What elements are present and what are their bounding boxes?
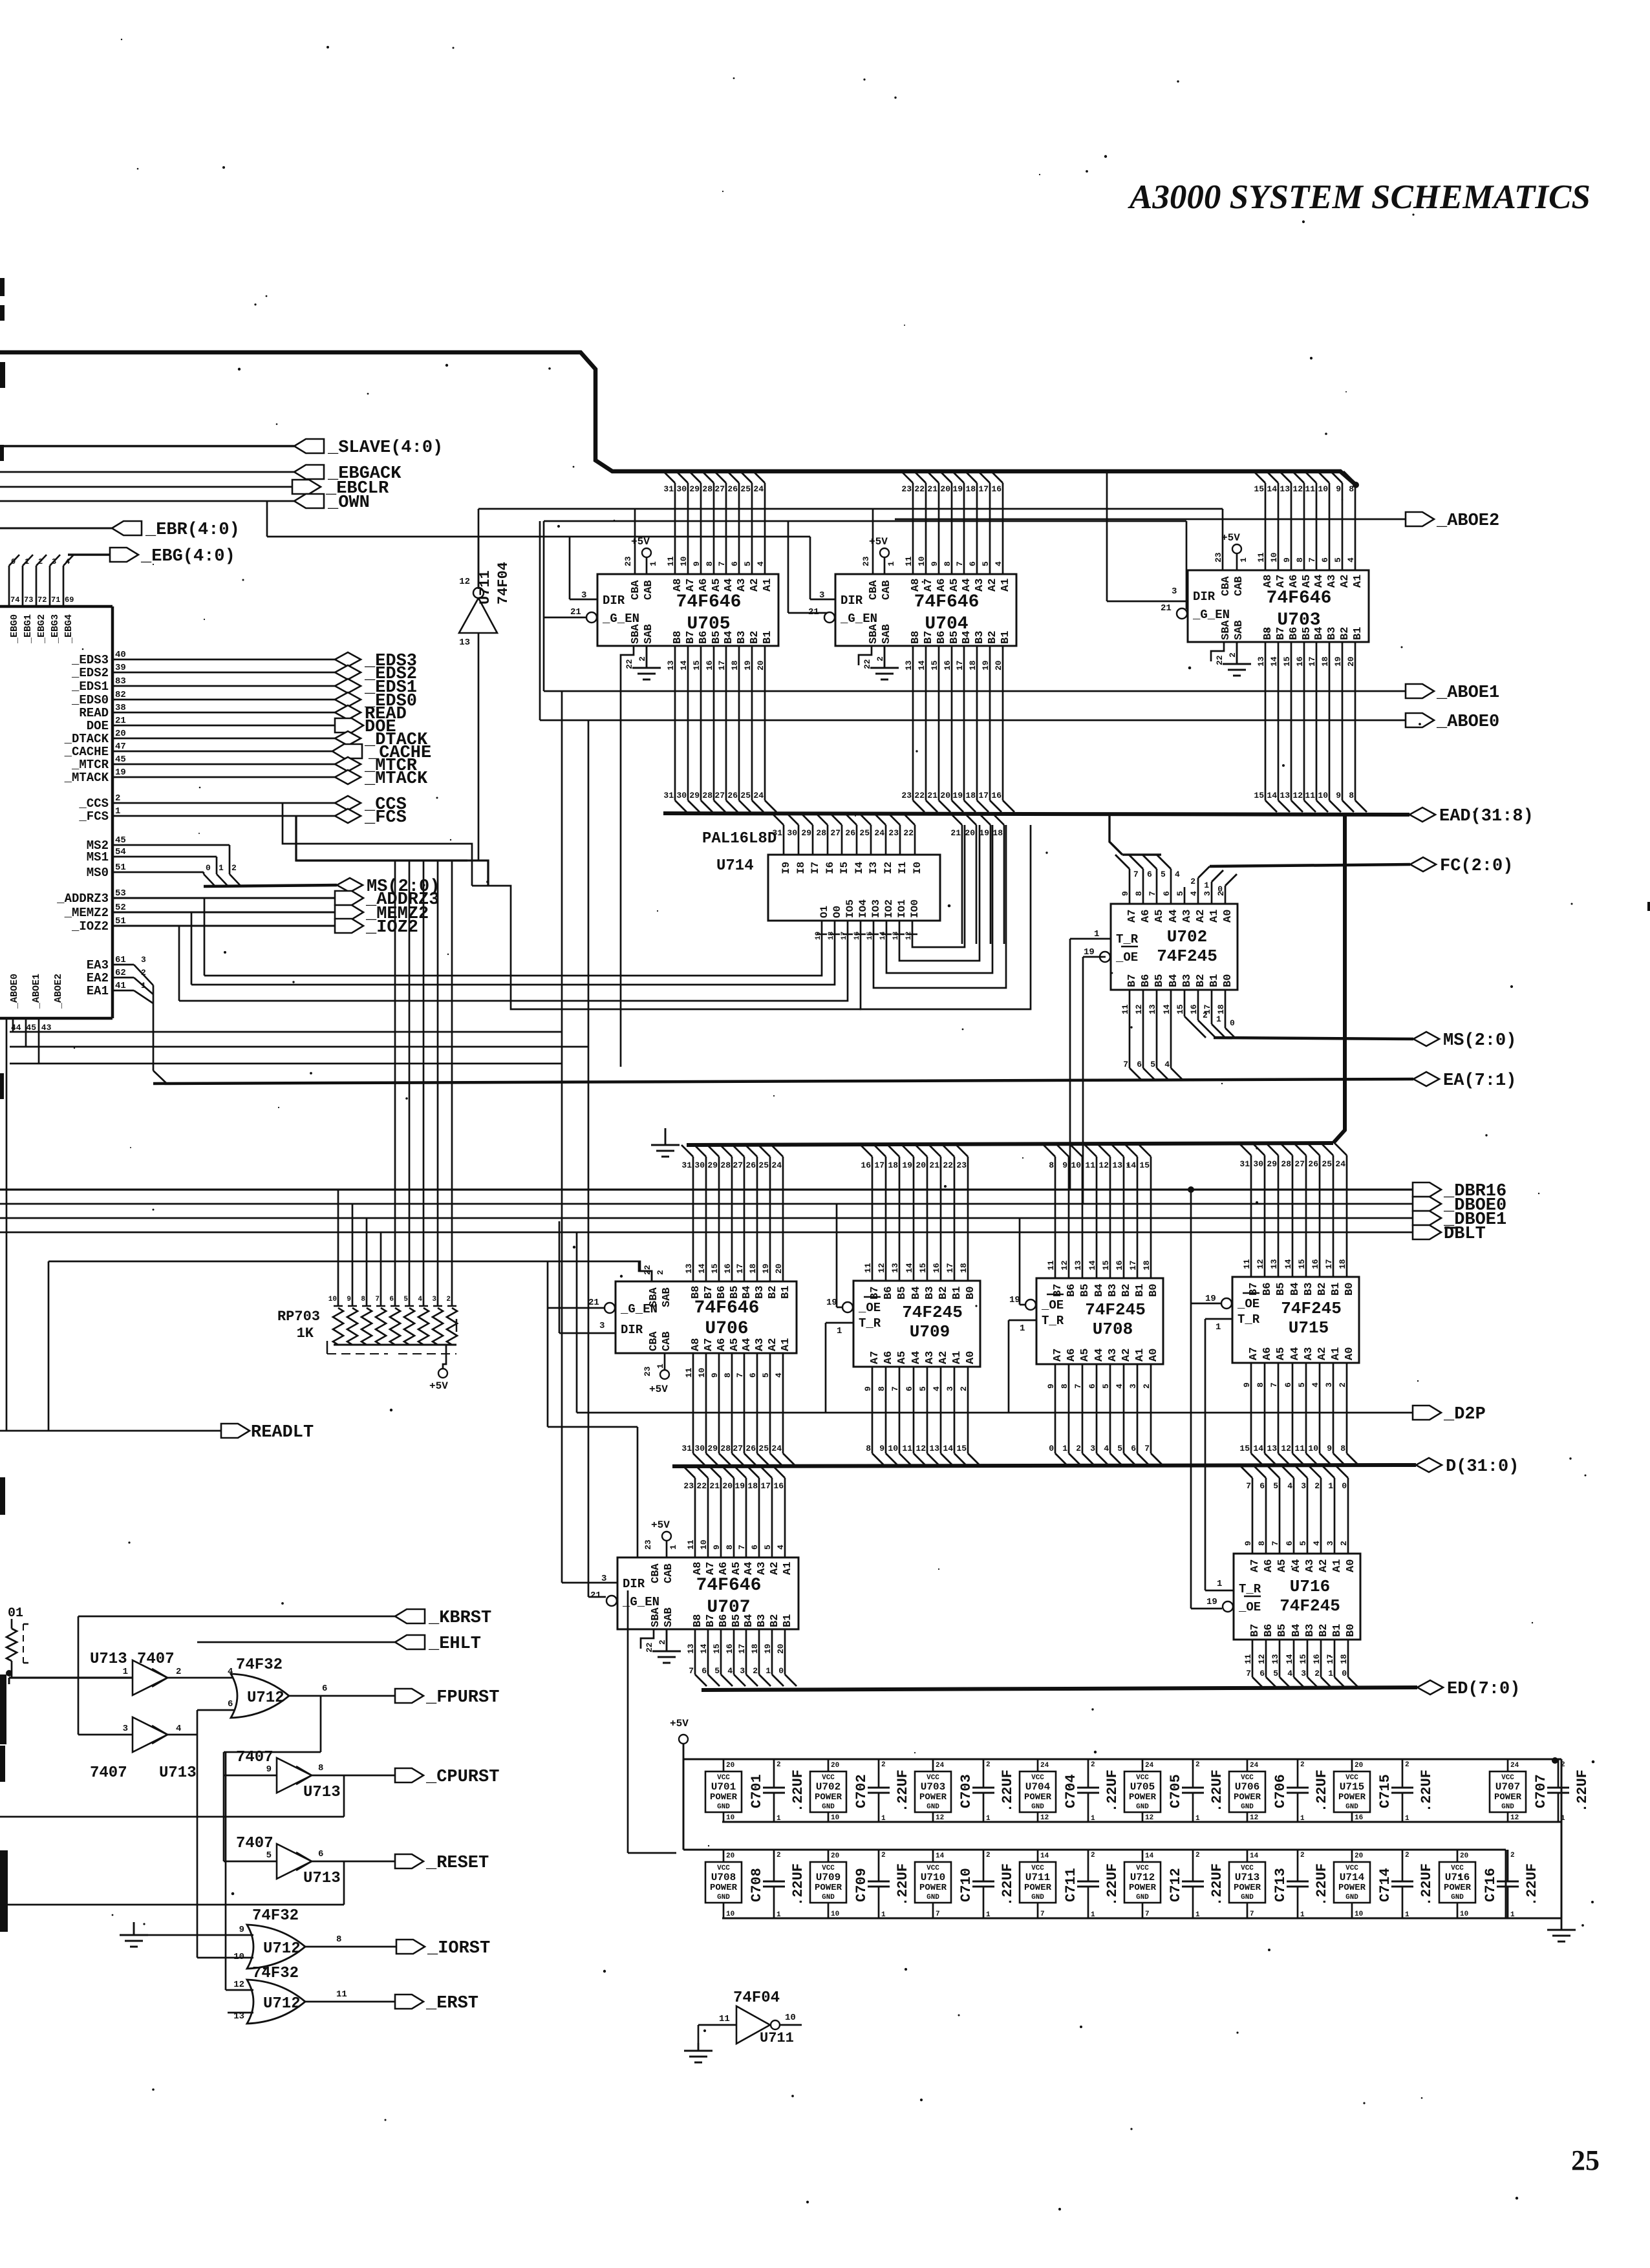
svg-text:3: 3 bbox=[1172, 586, 1177, 597]
svg-text:6: 6 bbox=[702, 1666, 707, 1676]
wire IORST input bbox=[197, 1735, 253, 1958]
svg-text:IO3: IO3 bbox=[870, 899, 882, 918]
wire _IORST net bbox=[305, 1934, 396, 1947]
wire control net a bbox=[10, 1018, 562, 1032]
svg-text:_CPURST: _CPURST bbox=[425, 1768, 499, 1787]
connector _DBR16 bbox=[1413, 1182, 1506, 1201]
svg-text:4: 4 bbox=[1287, 1669, 1292, 1678]
svg-text:I0: I0 bbox=[912, 862, 923, 874]
wire CPURST branch bbox=[0, 1775, 344, 1817]
svg-text:B3: B3 bbox=[924, 1287, 936, 1300]
svg-text:1: 1 bbox=[669, 1545, 678, 1550]
IC U702 74F245 bbox=[1084, 891, 1237, 1014]
svg-text:A4: A4 bbox=[1291, 1559, 1303, 1572]
svg-text:2: 2 bbox=[1300, 1761, 1305, 1769]
svg-text:_ABOE0: _ABOE0 bbox=[9, 974, 20, 1009]
svg-text:19: 19 bbox=[115, 767, 126, 778]
page number 25 bbox=[1571, 2145, 1600, 2176]
svg-text:9: 9 bbox=[347, 1296, 351, 1303]
wire buffer4 input bbox=[224, 1861, 277, 1863]
svg-text:10: 10 bbox=[328, 1296, 337, 1303]
svg-text:29: 29 bbox=[689, 484, 700, 494]
svg-text:.22UF: .22UF bbox=[895, 1863, 911, 1906]
svg-text:7: 7 bbox=[1123, 1060, 1128, 1069]
svg-text:SAB: SAB bbox=[1233, 620, 1245, 640]
power rail row1 bottom bbox=[722, 1821, 1561, 1823]
svg-text:POWER: POWER bbox=[710, 1792, 738, 1803]
svg-text:12: 12 bbox=[1292, 484, 1303, 494]
svg-text:74F646: 74F646 bbox=[676, 592, 742, 612]
svg-text:29: 29 bbox=[1267, 1159, 1277, 1169]
svg-text:A4: A4 bbox=[1313, 575, 1325, 588]
svg-text:U712: U712 bbox=[263, 1940, 301, 1958]
svg-text:2: 2 bbox=[1190, 877, 1195, 886]
svg-text:26: 26 bbox=[745, 1161, 756, 1170]
svg-text:C715: C715 bbox=[1377, 1774, 1393, 1808]
svg-text:69: 69 bbox=[65, 595, 74, 604]
svg-text:A2: A2 bbox=[1339, 575, 1351, 588]
svg-text:19: 19 bbox=[952, 484, 963, 494]
svg-text:B2: B2 bbox=[769, 1614, 781, 1627]
svg-text:7: 7 bbox=[1040, 1910, 1045, 1918]
svg-text:A5: A5 bbox=[711, 579, 723, 592]
svg-text:12: 12 bbox=[1145, 1814, 1153, 1822]
svg-text:C701: C701 bbox=[749, 1774, 765, 1808]
wire U708 A pins to D bus bbox=[1049, 1364, 1162, 1465]
svg-text:74F245: 74F245 bbox=[902, 1303, 963, 1322]
svg-text:.22UF: .22UF bbox=[1000, 1770, 1016, 1812]
svg-text:11: 11 bbox=[719, 2014, 730, 2024]
svg-text:C710: C710 bbox=[958, 1868, 974, 1902]
svg-text:11: 11 bbox=[1085, 1161, 1095, 1170]
svg-text:_FPURST: _FPURST bbox=[425, 1688, 499, 1707]
connector READLT bbox=[221, 1423, 314, 1442]
svg-text:.22UF: .22UF bbox=[1209, 1770, 1225, 1812]
svg-text:1: 1 bbox=[766, 1666, 771, 1676]
svg-text:A6: A6 bbox=[1261, 1347, 1274, 1360]
svg-text:U713: U713 bbox=[159, 1764, 197, 1782]
svg-text:U709: U709 bbox=[816, 1872, 841, 1883]
svg-text:2: 2 bbox=[1091, 1852, 1095, 1859]
svg-text:2: 2 bbox=[881, 1852, 886, 1859]
svg-text:SBA: SBA bbox=[1220, 620, 1232, 640]
capacitor C711 .22UF with power block U711 bbox=[1020, 1850, 1120, 1919]
svg-text:30: 30 bbox=[1253, 1159, 1263, 1169]
svg-text:12: 12 bbox=[1510, 1814, 1519, 1822]
svg-text:2: 2 bbox=[1314, 1481, 1320, 1491]
svg-text:A1: A1 bbox=[1331, 1559, 1344, 1572]
svg-text:A2: A2 bbox=[1195, 910, 1207, 923]
svg-text:0: 0 bbox=[11, 557, 16, 566]
svg-text:31: 31 bbox=[1239, 1159, 1250, 1169]
wire _EBGACK bbox=[0, 471, 294, 473]
svg-text:16: 16 bbox=[773, 1481, 784, 1491]
svg-text:A5: A5 bbox=[729, 1338, 741, 1351]
connector _SLAVE(4:0) bbox=[294, 438, 443, 458]
svg-text:_ABOE0: _ABOE0 bbox=[1436, 712, 1499, 732]
svg-text:20: 20 bbox=[726, 1852, 734, 1860]
ground at U712b input bbox=[120, 1922, 253, 1947]
resistor R701 (edge) bbox=[6, 1606, 28, 1663]
svg-text:2: 2 bbox=[1300, 1852, 1305, 1859]
svg-text:_KBRST: _KBRST bbox=[428, 1609, 491, 1628]
svg-text:39: 39 bbox=[115, 663, 126, 673]
svg-text:7: 7 bbox=[1250, 1910, 1254, 1918]
svg-text:A1: A1 bbox=[951, 1351, 963, 1364]
svg-text:A0: A0 bbox=[1345, 1559, 1357, 1572]
svg-text:+5V: +5V bbox=[649, 1384, 668, 1395]
svg-text:DOE: DOE bbox=[87, 719, 109, 733]
svg-text:4: 4 bbox=[176, 1724, 181, 1734]
pin 52 wire and connector _MEMZ2 with tap to PAL bbox=[64, 903, 429, 985]
svg-text:14: 14 bbox=[1145, 1852, 1154, 1860]
pin 2 wire and connector _CCS bbox=[78, 793, 406, 815]
wire U716 _OE control bbox=[1191, 1608, 1222, 1610]
svg-text:I6: I6 bbox=[824, 862, 836, 874]
svg-text:1: 1 bbox=[1328, 1481, 1333, 1491]
svg-text:T_R: T_R bbox=[1237, 1312, 1260, 1327]
svg-text:_ADDRZ3: _ADDRZ3 bbox=[56, 892, 109, 906]
svg-text:8: 8 bbox=[1349, 791, 1354, 800]
svg-text:1: 1 bbox=[1216, 1322, 1221, 1332]
svg-text:21: 21 bbox=[709, 1481, 720, 1491]
svg-text:B5: B5 bbox=[896, 1287, 908, 1300]
svg-text:B6: B6 bbox=[1140, 974, 1152, 987]
capacitor C701 .22UF with power block U701 bbox=[705, 1759, 806, 1823]
wire _CPURST net bbox=[312, 1775, 395, 1777]
svg-text:28: 28 bbox=[720, 1161, 731, 1170]
svg-text:B1: B1 bbox=[1352, 627, 1364, 640]
wire READLT net bbox=[0, 1430, 221, 1432]
svg-text:A1: A1 bbox=[1134, 1349, 1146, 1362]
svg-text:6: 6 bbox=[1147, 870, 1152, 879]
svg-text:74F245: 74F245 bbox=[1157, 947, 1217, 966]
svg-text:83: 83 bbox=[115, 676, 126, 687]
svg-text:_MEMZ2: _MEMZ2 bbox=[64, 906, 109, 920]
connector EA(7:1) bbox=[1413, 1071, 1516, 1091]
svg-text:A7: A7 bbox=[1126, 910, 1139, 923]
bus rip EAD bits into U714 inputs bbox=[772, 813, 915, 855]
connector _IORST bbox=[396, 1939, 490, 1958]
svg-text:11: 11 bbox=[1294, 1444, 1305, 1453]
svg-text:19: 19 bbox=[1205, 1294, 1216, 1304]
svg-text:6: 6 bbox=[1259, 1669, 1265, 1678]
svg-text:A5: A5 bbox=[1153, 910, 1166, 923]
pin 19 wire and connector _MTACK bbox=[64, 767, 428, 789]
wire U702 B3-B0 into MS bus bbox=[1184, 990, 1413, 1039]
svg-text:23: 23 bbox=[956, 1161, 967, 1170]
svg-text:A4: A4 bbox=[961, 579, 973, 592]
wire U705 SBA drop bbox=[620, 665, 622, 1067]
wire thick top bus from left edge to 74F646 bank bbox=[0, 352, 1359, 488]
svg-text:01: 01 bbox=[8, 1606, 23, 1621]
svg-text:12: 12 bbox=[233, 1980, 244, 1990]
svg-text:A5: A5 bbox=[1276, 1559, 1289, 1572]
svg-text:CBA: CBA bbox=[630, 580, 642, 600]
svg-text:.22UF: .22UF bbox=[1419, 1770, 1435, 1812]
svg-text:A2: A2 bbox=[1316, 1347, 1329, 1360]
power rail row2 top bbox=[683, 1850, 1506, 1918]
svg-text:B5: B5 bbox=[1275, 1283, 1287, 1296]
svg-text:A1: A1 bbox=[762, 579, 774, 592]
svg-text:20: 20 bbox=[940, 791, 950, 800]
wire FPURST branch down bbox=[224, 1696, 321, 1861]
svg-text:POWER: POWER bbox=[919, 1883, 947, 1893]
svg-text:C704: C704 bbox=[1063, 1774, 1079, 1808]
svg-text:27: 27 bbox=[1294, 1159, 1305, 1169]
svg-text:10: 10 bbox=[726, 1910, 734, 1918]
svg-text:2: 2 bbox=[1195, 1852, 1200, 1859]
capacitor C714 .22UF with power block U714 bbox=[1334, 1850, 1435, 1919]
svg-text:20: 20 bbox=[831, 1852, 839, 1860]
svg-text:.22UF: .22UF bbox=[895, 1770, 911, 1812]
svg-text:B0: B0 bbox=[1222, 974, 1234, 987]
svg-text:U708: U708 bbox=[711, 1872, 736, 1883]
svg-text:15: 15 bbox=[1139, 1161, 1150, 1170]
svg-text:_ABOE2: _ABOE2 bbox=[1436, 511, 1499, 531]
svg-text:.22UF: .22UF bbox=[1209, 1863, 1225, 1906]
svg-text:_IORST: _IORST bbox=[427, 1939, 490, 1958]
svg-text:3: 3 bbox=[1090, 1444, 1095, 1453]
svg-text:4: 4 bbox=[1287, 1481, 1292, 1491]
wire U706 DIR control bbox=[559, 1221, 616, 1333]
svg-text:24: 24 bbox=[771, 1161, 782, 1170]
svg-text:B2: B2 bbox=[937, 1287, 950, 1300]
svg-text:4: 4 bbox=[418, 1296, 422, 1303]
svg-text:5: 5 bbox=[714, 1666, 720, 1676]
svg-text:A3: A3 bbox=[736, 579, 748, 592]
svg-text:U712: U712 bbox=[263, 1995, 301, 2013]
svg-text:7407: 7407 bbox=[236, 1835, 273, 1852]
svg-text:B2: B2 bbox=[987, 631, 999, 644]
svg-text:GND: GND bbox=[1241, 1894, 1254, 1901]
wire U706 G_EN control bbox=[548, 1261, 605, 1427]
svg-text:20: 20 bbox=[1355, 1852, 1363, 1860]
svg-text:29: 29 bbox=[689, 791, 700, 800]
svg-text:POWER: POWER bbox=[1129, 1883, 1157, 1893]
svg-text:7: 7 bbox=[689, 1666, 694, 1676]
svg-text:1: 1 bbox=[1216, 1014, 1221, 1024]
svg-text:6: 6 bbox=[1137, 1060, 1142, 1069]
wire _EBR(4:0) bus bbox=[0, 528, 112, 530]
wire RP703 pull-up risers bbox=[338, 861, 452, 1306]
svg-text:U710: U710 bbox=[921, 1872, 945, 1883]
svg-text:B5: B5 bbox=[1079, 1284, 1091, 1297]
bus ED(7:0) thick bbox=[702, 1687, 1417, 1690]
svg-text:B3: B3 bbox=[1181, 974, 1194, 987]
svg-text:A7: A7 bbox=[1249, 1559, 1261, 1572]
wire R701 to buffer bbox=[6, 1661, 133, 1684]
pin 82 wire and connector _EDS0 bbox=[71, 690, 417, 711]
capacitor C716 .22UF with power block U716 bbox=[1439, 1850, 1540, 1919]
svg-text:I2: I2 bbox=[883, 862, 894, 874]
svg-text:B1: B1 bbox=[1000, 631, 1012, 644]
wire U716 B pins to ED bus bbox=[1246, 1640, 1360, 1689]
svg-text:28: 28 bbox=[816, 828, 826, 838]
svg-text:74F646: 74F646 bbox=[914, 592, 980, 612]
svg-text:B3: B3 bbox=[974, 631, 986, 644]
svg-text:B2: B2 bbox=[767, 1286, 779, 1299]
bus rip D bits 7-0 into U716 A pins bbox=[1241, 1466, 1348, 1554]
svg-text:4: 4 bbox=[65, 557, 70, 566]
svg-text:27: 27 bbox=[733, 1161, 743, 1170]
wire _D2P net bbox=[577, 1232, 1413, 1413]
svg-text:23: 23 bbox=[888, 828, 899, 838]
capacitor C706 .22UF with power block U706 bbox=[1229, 1759, 1330, 1823]
svg-text:_EBG4: _EBG4 bbox=[63, 614, 74, 644]
connector _EBR(4:0) bbox=[112, 520, 240, 540]
svg-text:23: 23 bbox=[861, 556, 871, 566]
svg-text:A3: A3 bbox=[1181, 910, 1194, 923]
svg-text:POWER: POWER bbox=[1129, 1792, 1157, 1803]
svg-text:_EBR(4:0): _EBR(4:0) bbox=[145, 520, 240, 540]
svg-text:19: 19 bbox=[826, 1298, 837, 1308]
svg-text:74F32: 74F32 bbox=[252, 1907, 299, 1925]
svg-text:14: 14 bbox=[936, 1852, 945, 1860]
svg-text:GND: GND bbox=[1241, 1803, 1254, 1811]
svg-text:GND: GND bbox=[717, 1894, 730, 1901]
svg-text:IO4: IO4 bbox=[857, 899, 869, 918]
svg-text:21: 21 bbox=[808, 607, 819, 617]
svg-text:B1: B1 bbox=[780, 1286, 792, 1299]
svg-text:C713: C713 bbox=[1272, 1868, 1289, 1902]
svg-text:DIR: DIR bbox=[623, 1577, 645, 1591]
wire _RESET net bbox=[312, 1861, 395, 1863]
svg-text:9: 9 bbox=[239, 1925, 244, 1935]
svg-text:C716: C716 bbox=[1483, 1868, 1499, 1902]
svg-text:IO2: IO2 bbox=[883, 899, 895, 918]
svg-text:30: 30 bbox=[694, 1161, 705, 1170]
wire U715 T_R control bbox=[1205, 1319, 1232, 1590]
svg-text:A6: A6 bbox=[1140, 910, 1152, 923]
svg-text:2: 2 bbox=[115, 793, 120, 804]
svg-text:21: 21 bbox=[927, 791, 937, 800]
svg-text:1: 1 bbox=[1094, 929, 1099, 939]
svg-text:MS1: MS1 bbox=[87, 850, 109, 864]
connector _ABOE2 bbox=[1406, 511, 1499, 531]
svg-text:U713: U713 bbox=[90, 1651, 127, 1668]
svg-text:23: 23 bbox=[901, 484, 912, 494]
buffer U713d 7407 bbox=[236, 1835, 341, 1887]
scan artifacts page edge bbox=[0, 278, 1650, 1932]
pin 21 wire and connector DOE bbox=[87, 716, 396, 737]
svg-text:5: 5 bbox=[1150, 1060, 1155, 1069]
svg-text:8: 8 bbox=[866, 1444, 871, 1453]
svg-text:A4: A4 bbox=[1168, 910, 1180, 923]
wire _ABOE1 net bbox=[544, 690, 1406, 692]
svg-text:10: 10 bbox=[1355, 1910, 1363, 1918]
svg-text:B5: B5 bbox=[1153, 974, 1166, 987]
svg-text:A2: A2 bbox=[767, 1338, 779, 1351]
svg-text:27: 27 bbox=[714, 484, 725, 494]
svg-text:GND: GND bbox=[927, 1894, 939, 1901]
svg-text:SAB: SAB bbox=[643, 624, 655, 644]
svg-text:2: 2 bbox=[1091, 1761, 1095, 1769]
svg-text:11: 11 bbox=[902, 1444, 912, 1453]
svg-text:.22UF: .22UF bbox=[1419, 1863, 1435, 1906]
svg-text:31: 31 bbox=[772, 828, 782, 838]
wire _SLAVE(4:0) bus bbox=[0, 445, 294, 447]
svg-text:GND: GND bbox=[1345, 1803, 1358, 1811]
svg-text:C702: C702 bbox=[853, 1774, 870, 1808]
svg-text:20: 20 bbox=[722, 1481, 733, 1491]
svg-text:U714: U714 bbox=[1340, 1872, 1365, 1883]
power rail row2 bottom bbox=[722, 1918, 1561, 1920]
svg-text:A7: A7 bbox=[1052, 1349, 1064, 1362]
svg-text:74F32: 74F32 bbox=[236, 1656, 283, 1674]
svg-text:19: 19 bbox=[979, 828, 989, 838]
svg-text:A6: A6 bbox=[718, 1562, 730, 1575]
capacitor C703 .22UF with power block U703 bbox=[915, 1759, 1016, 1823]
connector _CPURST bbox=[395, 1768, 499, 1787]
svg-text:DIR: DIR bbox=[603, 594, 625, 608]
power rail verticals bbox=[683, 1759, 1561, 1918]
wire _EBCLR bbox=[0, 486, 292, 488]
wire buffer2 input bbox=[78, 1734, 133, 1736]
pin 51 wire and connector _IOZ2 with tap to PAL bbox=[71, 916, 418, 1001]
svg-text:_DTACK: _DTACK bbox=[64, 732, 109, 746]
svg-text:_FCS: _FCS bbox=[78, 809, 109, 824]
svg-text:_CCS: _CCS bbox=[78, 797, 109, 811]
svg-text:9: 9 bbox=[1336, 791, 1341, 800]
svg-text:_G_EN: _G_EN bbox=[1192, 608, 1230, 622]
svg-text:A7: A7 bbox=[1275, 575, 1287, 588]
svg-text:B6: B6 bbox=[1263, 1624, 1275, 1637]
svg-text:16: 16 bbox=[991, 791, 1002, 800]
svg-text:B2: B2 bbox=[1195, 974, 1207, 987]
wire RESET branch bbox=[0, 1861, 344, 1905]
connector EAD(31:8) bbox=[1409, 807, 1534, 826]
svg-text:POWER: POWER bbox=[1494, 1792, 1522, 1803]
svg-text:IO1: IO1 bbox=[896, 899, 908, 918]
wire right mid vertical bbox=[628, 1590, 676, 1853]
svg-text:26: 26 bbox=[845, 828, 855, 838]
svg-text:23: 23 bbox=[901, 791, 912, 800]
svg-text:U713: U713 bbox=[303, 1870, 341, 1887]
svg-text:22: 22 bbox=[903, 828, 914, 838]
svg-text:29: 29 bbox=[707, 1161, 718, 1170]
svg-text:5: 5 bbox=[266, 1850, 272, 1861]
svg-text:19: 19 bbox=[902, 1161, 912, 1170]
svg-text:GND: GND bbox=[1345, 1894, 1358, 1901]
svg-text:U714: U714 bbox=[716, 857, 754, 875]
svg-text:_G_EN: _G_EN bbox=[620, 1302, 658, 1316]
svg-text:SAB: SAB bbox=[661, 1287, 673, 1307]
svg-text:8: 8 bbox=[336, 1934, 341, 1945]
svg-text:A4: A4 bbox=[723, 579, 735, 592]
svg-text:A2: A2 bbox=[1120, 1349, 1133, 1362]
bus D(31:0) lower rail thick bbox=[672, 1465, 1416, 1466]
+5V supply to cap bank bbox=[670, 1718, 689, 1759]
svg-text:U712: U712 bbox=[1130, 1872, 1155, 1883]
svg-text:4: 4 bbox=[1175, 870, 1180, 879]
svg-text:74: 74 bbox=[10, 595, 19, 604]
svg-text:U702: U702 bbox=[1167, 927, 1207, 947]
svg-text:6: 6 bbox=[1259, 1481, 1265, 1491]
svg-text:_IOZ2: _IOZ2 bbox=[365, 918, 418, 937]
svg-text:SAB: SAB bbox=[881, 624, 893, 644]
IC U716 74F245 bbox=[1206, 1541, 1360, 1664]
svg-text:2: 2 bbox=[777, 1852, 781, 1859]
capacitor C715 .22UF with power block U715 bbox=[1334, 1759, 1435, 1823]
wire U702 T_R control bbox=[1070, 939, 1111, 1190]
svg-text:U715: U715 bbox=[1340, 1781, 1364, 1793]
ground near D bus bbox=[651, 1128, 680, 1157]
IC U709 74F245 bbox=[826, 1263, 980, 1391]
svg-text:POWER: POWER bbox=[1338, 1883, 1366, 1893]
svg-text:0: 0 bbox=[1342, 1481, 1347, 1491]
svg-text:18: 18 bbox=[965, 484, 976, 494]
